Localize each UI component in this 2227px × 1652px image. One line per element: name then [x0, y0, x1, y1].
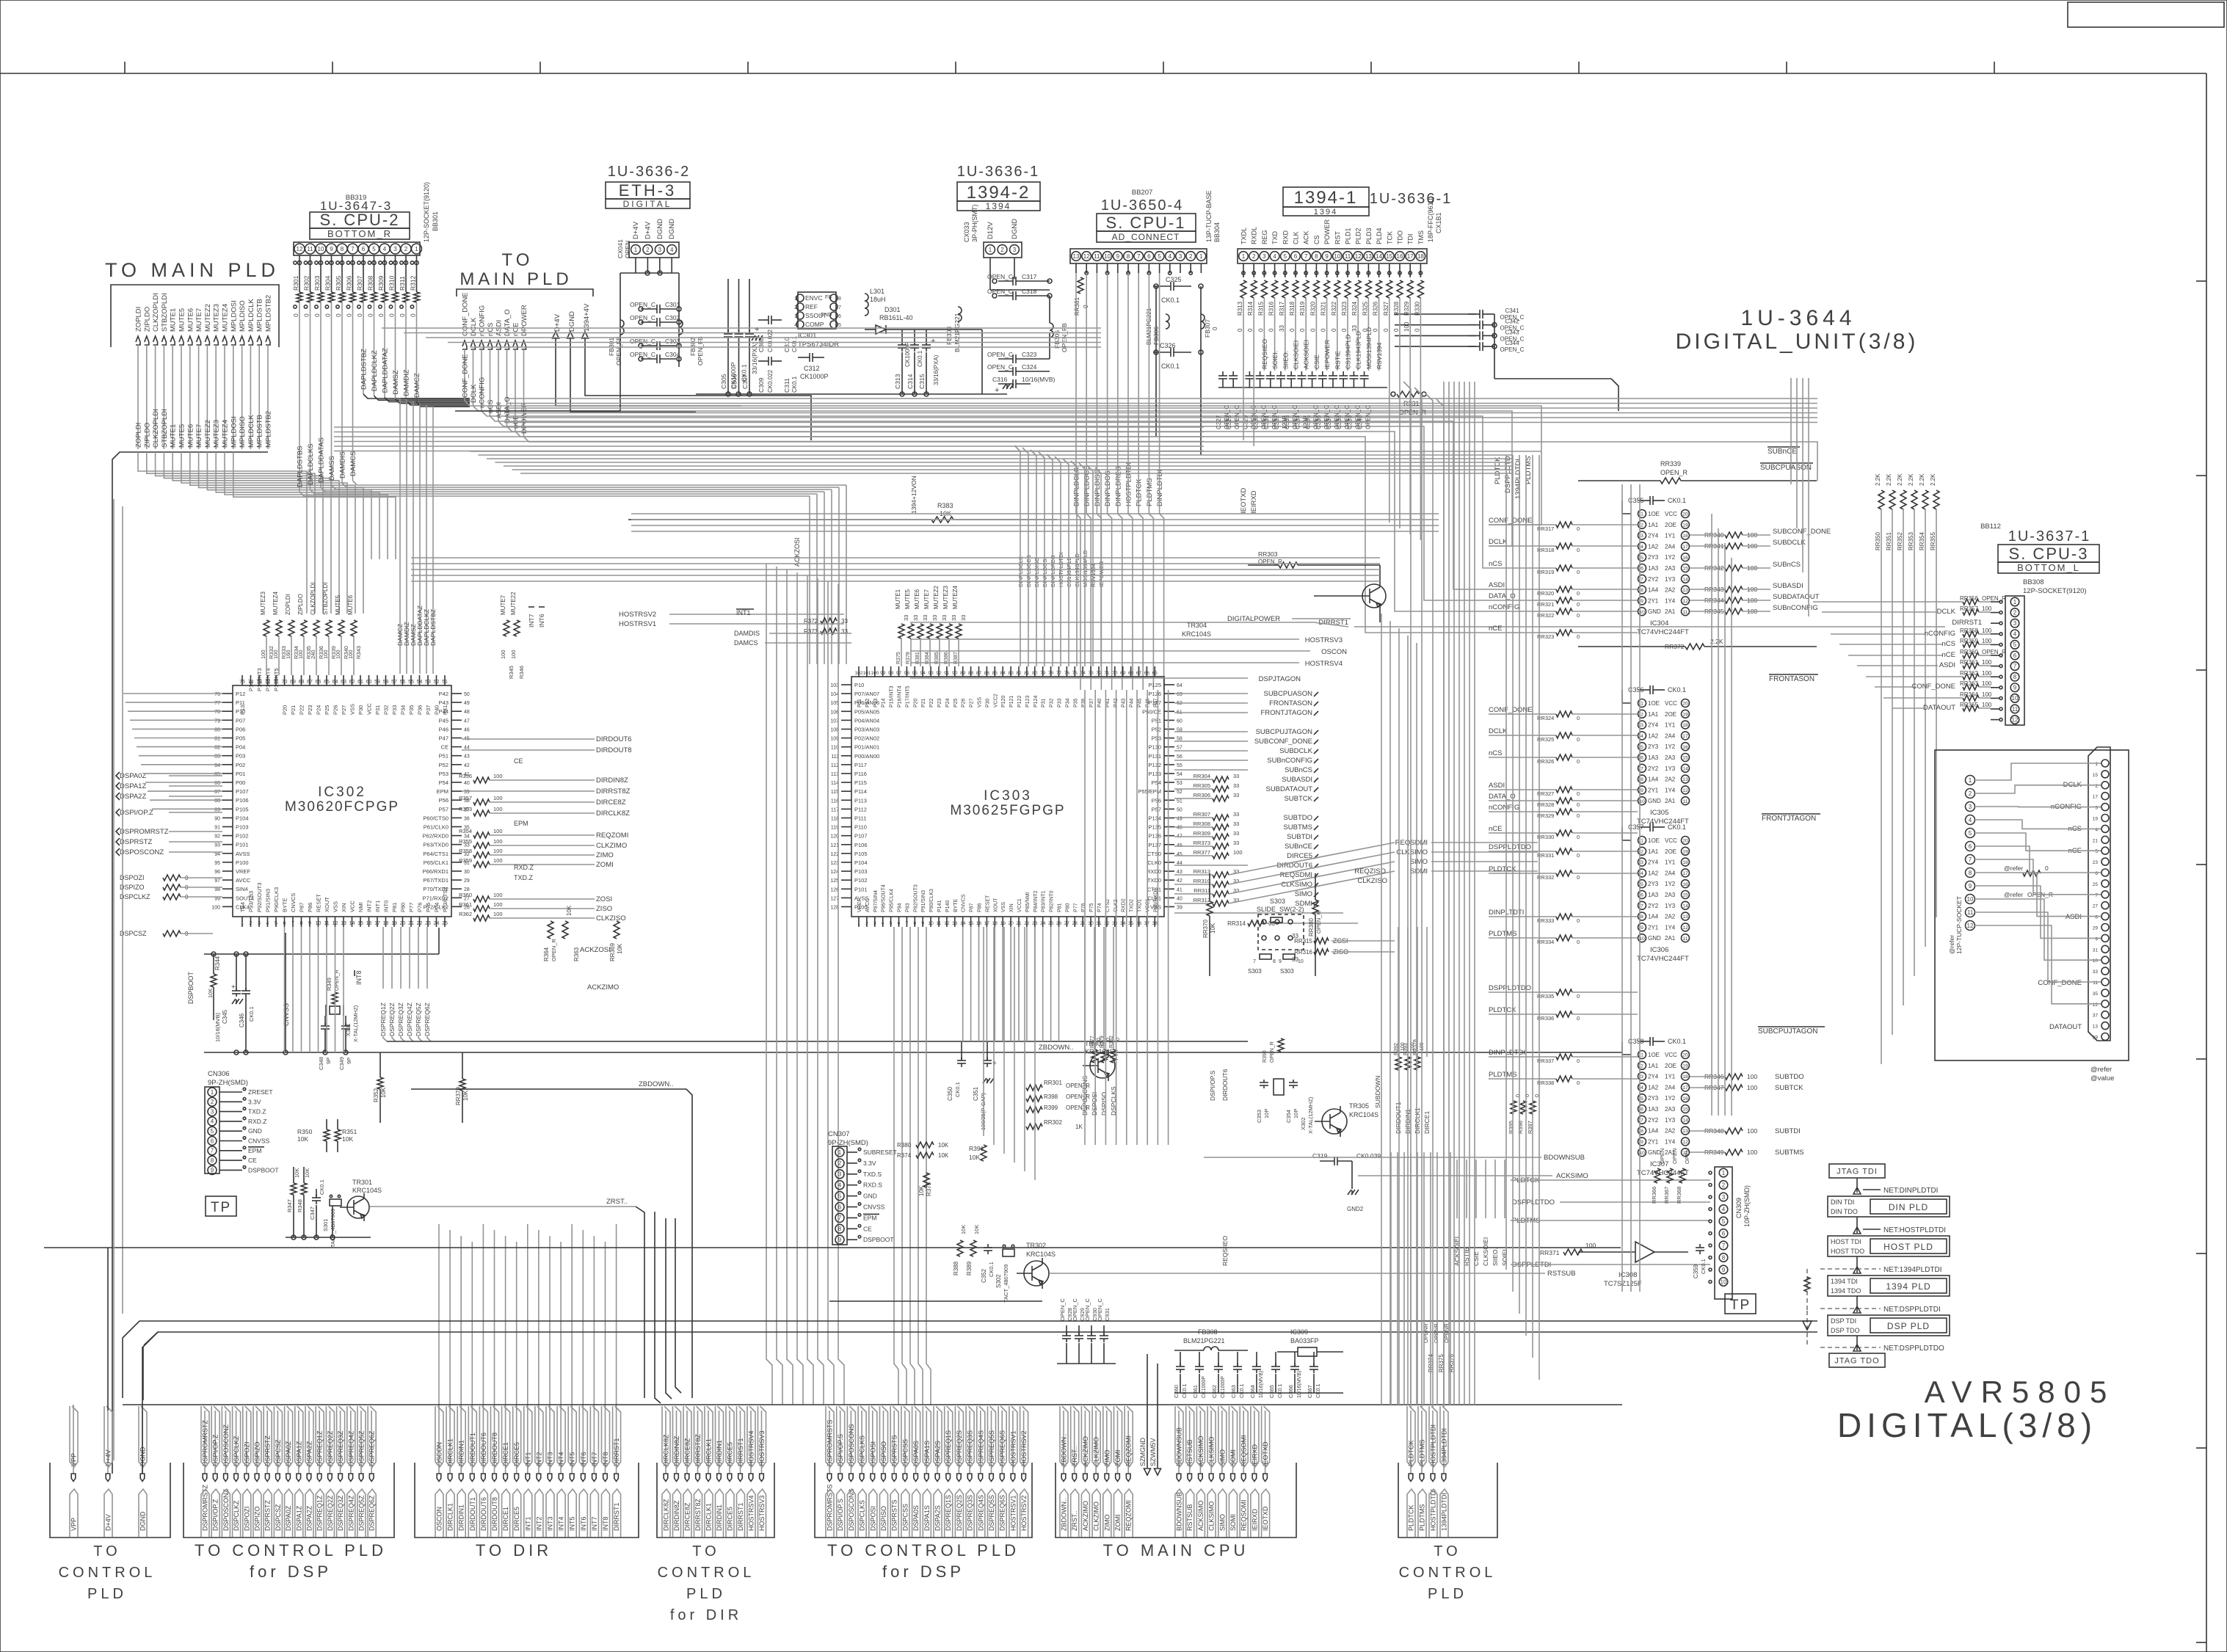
svg-text:33: 33: [951, 615, 957, 621]
svg-text:C347: C347: [309, 1207, 316, 1220]
svg-text:PLD: PLD: [686, 1586, 726, 1602]
wire 1394-1 drops: [1243, 298, 1244, 440]
svg-text:2.2K: 2.2K: [1930, 473, 1936, 486]
svg-text:CLKZISO: CLKZISO: [1357, 877, 1387, 885]
svg-text:DSPOZI: DSPOZI: [243, 1506, 250, 1531]
svg-text:3: 3: [393, 246, 397, 252]
svg-text:1U-3644: 1U-3644: [1740, 306, 1856, 330]
wire net DAMCZ: [416, 302, 418, 402]
svg-text:R323: R323: [1341, 301, 1348, 316]
svg-text:P33: P33: [1058, 698, 1063, 707]
svg-text:DSPI/OP.S: DSPI/OP.S: [837, 1499, 844, 1531]
svg-text:DIRDIN8Z: DIRDIN8Z: [596, 776, 628, 785]
svg-text:1: 1: [634, 247, 638, 253]
bus bundle ic303-banks: [894, 927, 898, 1405]
svg-text:4: 4: [1169, 253, 1172, 260]
svg-text:BB304: BB304: [1213, 222, 1221, 242]
svg-text:P54: P54: [439, 779, 448, 786]
svg-text:CS1394PLD: CS1394PLD: [1345, 335, 1352, 369]
svg-text:ZIPLDO: ZIPLDO: [143, 423, 151, 448]
svg-text:DAMCZ: DAMCZ: [413, 373, 421, 398]
svg-text:EPM: EPM: [437, 788, 448, 795]
svg-text:VCC2: VCC2: [993, 694, 998, 707]
svg-text:0: 0: [1577, 917, 1580, 924]
svg-text:P133: P133: [1148, 771, 1161, 777]
svg-text:DSPBOOT: DSPBOOT: [187, 971, 195, 1004]
svg-text:P122: P122: [1017, 696, 1022, 707]
IC IC307 TC74VHC244FT: [1638, 1041, 1650, 1042]
svg-text:KRA104S: KRA104S: [1085, 1048, 1114, 1055]
svg-text:5: 5: [890, 921, 893, 926]
block S.CPU-2: [310, 212, 410, 228]
svg-text:DSPOSI: DSPOSI: [869, 1441, 876, 1466]
svg-text:6: 6: [838, 1204, 842, 1210]
svg-text:P90/CLK3: P90/CLK3: [929, 889, 934, 912]
svg-text:2: 2: [865, 921, 868, 926]
svg-text:100: 100: [500, 649, 506, 659]
svg-text:SOIEI.: SOIEI.: [1271, 351, 1279, 369]
svg-text:12: 12: [1682, 788, 1688, 793]
bus mid stub: [1512, 451, 1541, 452]
svg-text:0: 0: [1247, 328, 1254, 332]
svg-text:1K: 1K: [1075, 1124, 1083, 1130]
svg-text:R346: R346: [518, 666, 525, 679]
svg-text:DIRCE1: DIRCE1: [1423, 1111, 1431, 1134]
svg-text:80: 80: [214, 727, 220, 732]
svg-text:R322: R322: [1331, 301, 1337, 316]
svg-text:P93/TB3: P93/TB3: [248, 891, 255, 912]
resistor R329: [1407, 280, 1413, 298]
svg-text:7: 7: [1969, 856, 1972, 863]
svg-text:AVCC: AVCC: [865, 898, 871, 912]
svg-text:RST: RST: [1334, 230, 1341, 244]
transistor TR305: [1322, 1109, 1347, 1134]
svg-text:REQSOMI: REQSOMI: [1240, 1499, 1248, 1531]
svg-text:5: 5: [1722, 1218, 1726, 1225]
svg-text:8: 8: [1273, 959, 1276, 964]
svg-text:MPLDOSI: MPLDOSI: [230, 416, 238, 448]
svg-text:C349: C349: [338, 1057, 345, 1070]
svg-text:ZIPLDO: ZIPLDO: [297, 594, 304, 615]
svg-text:2A4: 2A4: [1665, 732, 1676, 739]
svg-text:SUBnCS: SUBnCS: [1285, 766, 1312, 774]
wire bank net INT8: [605, 1411, 606, 1474]
svg-text:TO: TO: [692, 1543, 719, 1560]
svg-text:DINPLDREG: DINPLDREG: [1114, 466, 1122, 506]
svg-text:99: 99: [880, 671, 886, 676]
svg-text:0: 0: [1577, 834, 1580, 840]
bus drops cn307: [983, 927, 984, 1136]
svg-text:MUTEZ2: MUTEZ2: [204, 420, 212, 448]
svg-text:102: 102: [855, 671, 863, 676]
wire bank net BDOWNSUB: [1178, 1411, 1180, 1474]
svg-text:ZOMI: ZOMI: [596, 861, 614, 869]
svg-text:CTS0: CTS0: [1147, 851, 1161, 857]
svg-text:5: 5: [1284, 253, 1287, 260]
svg-text:CN307: CN307: [828, 1130, 850, 1138]
wire cpu1 bus: [1155, 286, 1157, 352]
svg-text:13P-TUCP-BASE: 13P-TUCP-BASE: [1205, 190, 1213, 242]
svg-text:240: 240: [310, 649, 316, 659]
svg-text:MUTEZ4: MUTEZ4: [272, 591, 279, 615]
svg-text:33: 33: [941, 615, 948, 621]
IC308 buffer: [1635, 1242, 1654, 1262]
svg-text:26: 26: [1056, 921, 1062, 926]
svg-text:DSP PLD: DSP PLD: [1887, 1321, 1930, 1331]
svg-text:RR357: RR357: [1960, 605, 1978, 612]
svg-text:30: 30: [1088, 921, 1094, 926]
svg-text:RR351: RR351: [1886, 532, 1892, 550]
svg-text:0: 0: [1414, 328, 1420, 332]
svg-text:R357: R357: [459, 795, 472, 801]
svg-text:NET:DINPLDTDI: NET:DINPLDTDI: [1883, 1187, 1938, 1195]
wire rail 1300: [204, 953, 439, 955]
svg-text:R308: R308: [367, 275, 374, 291]
svg-text:1394-2: 1394-2: [967, 183, 1031, 203]
svg-text:DSPOSCONZ: DSPOSCONZ: [222, 1488, 230, 1531]
svg-text:P31: P31: [1042, 698, 1047, 707]
svg-text:5: 5: [1641, 882, 1643, 887]
svg-text:P136: P136: [1148, 833, 1161, 840]
svg-text:REQZOMI: REQZOMI: [1125, 1436, 1133, 1466]
svg-text:OPEN_C: OPEN_C: [987, 351, 1013, 358]
capacitor C324: [998, 371, 1013, 372]
svg-text:DIRCLK8Z: DIRCLK8Z: [596, 809, 630, 818]
svg-text:DGND: DGND: [139, 1511, 147, 1531]
svg-text:1A2: 1A2: [1648, 543, 1659, 550]
svg-text:R328: R328: [1393, 301, 1400, 316]
wire bank net DSPCSZ: [277, 1411, 278, 1474]
svg-text:GND2: GND2: [1347, 1206, 1364, 1212]
svg-text:CK1000P: CK1000P: [1202, 1376, 1207, 1398]
svg-text:C342: C342: [1505, 319, 1519, 325]
svg-text:3: 3: [658, 247, 662, 253]
svg-text:R375: R375: [896, 652, 901, 664]
resistor R383: [931, 517, 953, 523]
svg-text:DIRCE5: DIRCE5: [727, 1507, 734, 1531]
resistors RR366-368: [1654, 1168, 1660, 1183]
svg-text:P95/CLK4: P95/CLK4: [890, 889, 895, 912]
svg-text:P15/INT3: P15/INT3: [890, 685, 895, 707]
svg-text:10K: 10K: [938, 1152, 949, 1159]
svg-text:2: 2: [1722, 1182, 1726, 1188]
svg-text:SUBTMS: SUBTMS: [1283, 823, 1312, 832]
svg-text:P06/AN06: P06/AN06: [854, 699, 879, 706]
svg-text:D12V: D12V: [987, 222, 995, 239]
svg-text:P90/CLK3: P90/CLK3: [273, 887, 280, 912]
bus low 1: [44, 1247, 1621, 1248]
svg-text:13: 13: [1682, 914, 1688, 920]
capacitor C319: [1320, 1160, 1334, 1162]
svg-text:MUTE5: MUTE5: [335, 594, 341, 615]
svg-text:4: 4: [2095, 827, 2098, 832]
wire cn307 bus: [829, 1300, 1042, 1302]
svg-text:CE: CE: [248, 1157, 257, 1164]
svg-text:PLD2: PLD2: [1355, 228, 1362, 244]
svg-text:33: 33: [1279, 325, 1285, 332]
svg-text:10K: 10K: [969, 1154, 980, 1161]
block BOTTOM_L: [1998, 562, 2099, 573]
svg-text:37: 37: [2093, 1014, 2099, 1019]
svg-text:9: 9: [308, 921, 311, 926]
svg-text:12: 12: [1682, 1140, 1688, 1145]
svg-text:9: 9: [330, 246, 333, 252]
svg-text:DATA_O: DATA_O: [1489, 793, 1516, 801]
wire net DAPLDDATAS: [320, 302, 321, 487]
wire run ASDI: [498, 421, 1489, 600]
svg-text:DIRCLK1: DIRCLK1: [705, 1503, 713, 1531]
svg-text:DAMSZ: DAMSZ: [392, 370, 400, 394]
svg-text:12: 12: [944, 921, 950, 926]
wire bank net INT7: [593, 1411, 595, 1474]
svg-text:0: 0: [1577, 736, 1580, 743]
svg-text:P46: P46: [439, 726, 448, 732]
svg-text:C325: C325: [1166, 276, 1182, 283]
svg-text:P21: P21: [921, 698, 926, 707]
svg-text:P104: P104: [236, 815, 249, 821]
gnd bus ETH: [696, 393, 1007, 395]
resistor RR359: [1963, 641, 1979, 647]
svg-text:100: 100: [1747, 1073, 1757, 1080]
svg-text:5: 5: [1641, 1096, 1643, 1102]
svg-text:R306: R306: [346, 275, 353, 291]
svg-text:DSPREQ5Z: DSPREQ5Z: [358, 1495, 366, 1531]
svg-text:21: 21: [1016, 921, 1022, 926]
svg-text:HOSTRSV2: HOSTRSV2: [1020, 1495, 1028, 1531]
svg-text:100: 100: [1982, 680, 1992, 687]
wire net DINPLDOCS: [1086, 273, 1087, 449]
svg-text:10: 10: [1104, 253, 1111, 260]
svg-text:16: 16: [1682, 556, 1688, 561]
svg-text:PLDTCK: PLDTCK: [1408, 1504, 1415, 1531]
wire bank net DIRDOUT6: [482, 1411, 484, 1474]
svg-text:100: 100: [1982, 605, 1992, 612]
svg-text:1: 1: [1641, 702, 1643, 707]
svg-text:P03/AN03: P03/AN03: [854, 727, 879, 733]
bracket TO MAIN PLD mid: [457, 289, 593, 296]
svg-text:@value: @value: [2090, 1074, 2114, 1082]
wire vpair 907: [666, 1218, 672, 1399]
svg-text:5: 5: [838, 1193, 842, 1199]
svg-text:DSPI/OP.Z: DSPI/OP.Z: [212, 1499, 219, 1531]
svg-text:DSPROMRSTZ: DSPROMRSTZ: [120, 828, 169, 836]
svg-text:C323: C323: [1022, 351, 1037, 358]
svg-text:nCE: nCE: [1489, 625, 1502, 633]
svg-text:2Y3: 2Y3: [1648, 554, 1659, 561]
svg-text:DSPREQ1Z: DSPREQ1Z: [379, 1003, 387, 1036]
svg-text:OPEN_C: OPEN_C: [1072, 1298, 1078, 1321]
svg-text:DATA_O: DATA_O: [1489, 592, 1516, 600]
wire collector TO MAIN PLD: [112, 452, 268, 1474]
svg-text:0: 0: [324, 313, 332, 317]
wire bank net DIRCE1: [505, 1411, 506, 1474]
svg-text:S301: S301: [322, 1218, 329, 1231]
svg-text:12: 12: [2093, 1003, 2099, 1008]
IC302 top pins: [241, 675, 243, 685]
svg-text:DAMDIS: DAMDIS: [339, 451, 347, 479]
block 1394-2: [957, 182, 1040, 201]
svg-text:100: 100: [1982, 627, 1992, 634]
svg-text:6: 6: [362, 246, 366, 252]
svg-text:35: 35: [2093, 991, 2099, 997]
svg-text:11: 11: [1682, 610, 1687, 615]
switch S302: [1003, 1249, 1014, 1256]
svg-text:86: 86: [214, 781, 220, 786]
svg-text:DAMDIS: DAMDIS: [734, 630, 760, 637]
svg-text:9: 9: [211, 1167, 214, 1173]
wire net PLDTCK: [1138, 273, 1139, 449]
svg-text:CK1000P: CK1000P: [800, 373, 829, 380]
svg-text:DSPREQ2Z: DSPREQ2Z: [327, 1495, 334, 1531]
capacitor C314: [914, 330, 915, 345]
svg-text:REQZOMI: REQZOMI: [596, 832, 628, 840]
svg-text:IEOTXD: IEOTXD: [1240, 487, 1248, 514]
wire run CONF_DONE: [465, 401, 1541, 525]
svg-text:DIRCLK1: DIRCLK1: [447, 1438, 454, 1466]
resistor RR344: [1725, 597, 1743, 603]
svg-text:CLKSOIEI: CLKSOIEI: [1293, 341, 1300, 369]
svg-text:6: 6: [211, 1138, 214, 1144]
svg-text:58: 58: [383, 680, 389, 685]
svg-text:SUBDCLK: SUBDCLK: [1279, 747, 1313, 755]
svg-text:P77: P77: [408, 903, 415, 912]
wire bank net DSPA2S: [937, 1411, 938, 1474]
title box top right: [2068, 2, 2224, 27]
svg-text:COMP: COMP: [805, 321, 824, 328]
resistor R326: [1376, 280, 1382, 298]
switch S301: [330, 1199, 341, 1206]
svg-text:0: 0: [1577, 852, 1580, 859]
svg-text:P94: P94: [898, 903, 903, 912]
svg-text:75: 75: [1072, 671, 1078, 676]
svg-text:42: 42: [464, 763, 470, 768]
svg-text:CK1000P: CK1000P: [904, 342, 911, 367]
svg-text:DSPROMRSTZ: DSPROMRSTZ: [202, 1419, 209, 1466]
svg-text:SDMI: SDMI: [1410, 867, 1428, 876]
svg-text:P36: P36: [1081, 698, 1086, 707]
svg-text:0: 0: [1289, 328, 1296, 332]
svg-text:RR355: RR355: [1930, 532, 1936, 550]
svg-text:22: 22: [1024, 921, 1030, 926]
svg-text:PLDTMS: PLDTMS: [1419, 1439, 1426, 1466]
svg-text:P103: P103: [236, 824, 249, 831]
svg-text:M30620FCPGP: M30620FCPGP: [285, 799, 399, 815]
svg-text:NET:HOSTPLDTDI: NET:HOSTPLDTDI: [1883, 1226, 1946, 1234]
svg-text:7: 7: [1641, 1118, 1643, 1123]
svg-text:VCC: VCC: [366, 703, 373, 715]
svg-text:TO CONTROL PLD: TO CONTROL PLD: [827, 1541, 1020, 1560]
svg-text:25: 25: [2093, 882, 2099, 887]
svg-text:P24: P24: [945, 698, 951, 707]
svg-text:100: 100: [347, 649, 354, 659]
svg-text:OPEN_C: OPEN_C: [1084, 1298, 1091, 1321]
svg-text:TCK: TCK: [1386, 231, 1393, 244]
svg-text:DATAOUT: DATAOUT: [1923, 704, 1955, 712]
svg-text:XOUT: XOUT: [324, 897, 330, 912]
svg-text:10K: 10K: [938, 1142, 949, 1149]
svg-text:S303: S303: [1270, 898, 1285, 905]
resistor R322: [1334, 280, 1340, 298]
svg-text:RR381: RR381: [1074, 297, 1080, 316]
svg-text:7: 7: [291, 921, 294, 926]
svg-text:18: 18: [383, 921, 389, 926]
svg-text:DIRRST1: DIRRST1: [737, 1502, 744, 1531]
svg-text:1A2: 1A2: [1648, 732, 1659, 739]
svg-text:DIRDIN8Z: DIRDIN8Z: [673, 1436, 680, 1466]
svg-text:P25: P25: [324, 705, 330, 715]
svg-text:15: 15: [1682, 893, 1688, 898]
svg-text:IEOTXD: IEOTXD: [1262, 1441, 1269, 1466]
svg-text:BB112: BB112: [1980, 523, 2001, 531]
wire net CLK1943PLD: [1357, 298, 1359, 371]
svg-text:61: 61: [357, 680, 363, 685]
svg-text:P43: P43: [1122, 698, 1127, 707]
svg-text:P24: P24: [316, 705, 322, 715]
svg-text:R374: R374: [897, 1152, 912, 1159]
svg-text:76: 76: [214, 692, 220, 697]
svg-text:1Y3: 1Y3: [1665, 903, 1676, 909]
bus mid horizontals2: [411, 557, 1380, 558]
svg-text:CK0.1: CK0.1: [319, 1179, 325, 1195]
TP box left: [206, 1196, 236, 1216]
wire bank net HOSTRSV2: [1023, 1411, 1025, 1474]
svg-text:100: 100: [1747, 1127, 1757, 1135]
svg-text:TO MAIN CPU: TO MAIN CPU: [1103, 1541, 1249, 1560]
svg-text:C350: C350: [947, 1086, 953, 1101]
svg-text:FRONTJTAGON: FRONTJTAGON: [1762, 815, 1816, 823]
svg-text:33: 33: [1233, 830, 1239, 837]
wire bank net INT3: [549, 1411, 551, 1474]
svg-text:0: 0: [1577, 812, 1580, 819]
svg-text:10: 10: [928, 921, 934, 926]
svg-text:DATA_O: DATA_O: [504, 396, 512, 423]
svg-text:15: 15: [357, 921, 363, 926]
svg-text:1: 1: [1641, 1053, 1643, 1058]
svg-text:FRONTASON: FRONTASON: [1269, 699, 1312, 707]
svg-text:1394-1: 1394-1: [1294, 188, 1358, 208]
svg-text:R356: R356: [459, 773, 472, 779]
svg-text:100: 100: [335, 649, 341, 659]
svg-text:DSPRSTS: DSPRSTS: [891, 1499, 898, 1531]
svg-text:DSPPLDTDO: DSPPLDTDO: [1489, 843, 1531, 851]
svg-text:64: 64: [333, 680, 338, 685]
svg-text:MPLDCLK: MPLDCLK: [247, 298, 255, 332]
svg-text:ZRST..: ZRST..: [606, 1198, 628, 1206]
svg-text:P20: P20: [282, 705, 288, 715]
svg-text:17: 17: [1682, 871, 1688, 876]
svg-text:3: 3: [2095, 806, 2098, 811]
svg-text:33: 33: [1233, 840, 1239, 846]
svg-text:P01: P01: [236, 771, 245, 777]
wire net DINPLDREG: [1117, 273, 1119, 449]
svg-text:3: 3: [2013, 620, 2017, 627]
svg-text:P84/INT2: P84/INT2: [1033, 890, 1039, 912]
svg-text:33: 33: [1112, 921, 1118, 926]
bracket TO: [1398, 1463, 1497, 1538]
svg-text:HOSTRSV1: HOSTRSV1: [1009, 1495, 1017, 1531]
wire net MOSI1394PLD: [1367, 298, 1369, 371]
svg-text:10K: 10K: [304, 1168, 310, 1178]
svg-text:P83/INT1: P83/INT1: [1042, 890, 1047, 912]
svg-text:1OE: 1OE: [1648, 511, 1660, 517]
svg-text:85: 85: [992, 671, 998, 676]
svg-text:83: 83: [214, 754, 220, 760]
svg-text:DIRCE1: DIRCE1: [502, 1507, 509, 1531]
svg-text:DIRDOUT1: DIRDOUT1: [469, 1497, 476, 1531]
svg-text:IEIRXD: IEIRXD: [1251, 1508, 1258, 1531]
svg-text:1Y3: 1Y3: [1665, 1117, 1676, 1124]
block ETH-3: [606, 182, 690, 199]
